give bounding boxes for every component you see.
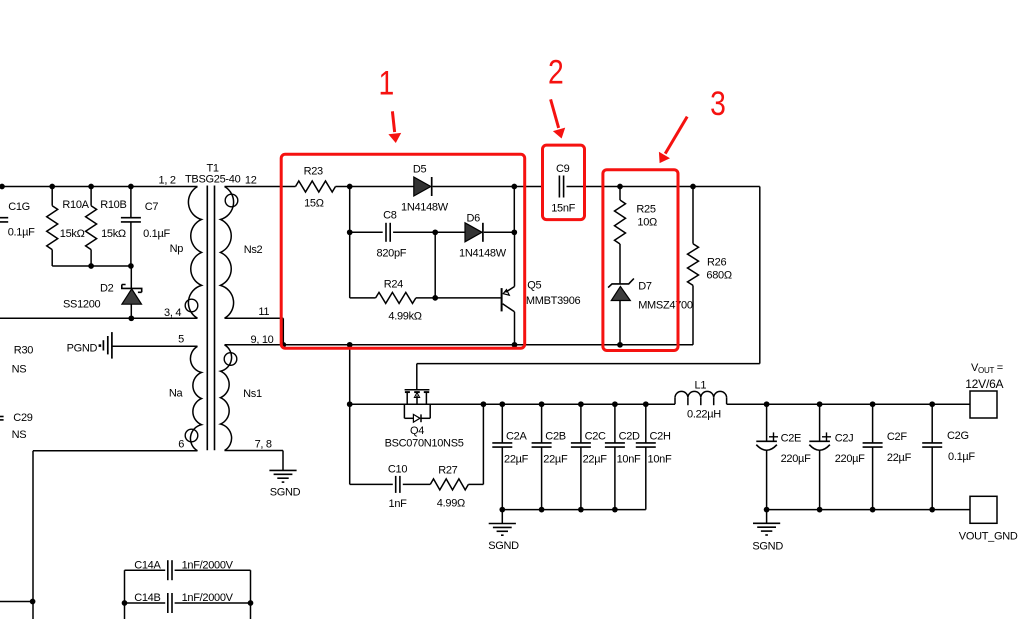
node R10A top [49,184,55,190]
svg-text:C8: C8 [383,210,397,222]
capacitor C2D 10nF [614,404,616,443]
capacitor C10 1nF [350,483,393,485]
node C2E top [764,401,770,407]
wire bottom-left stub [0,601,33,603]
svg-text:22µF: 22µF [887,452,912,464]
svg-text:5: 5 [178,334,184,346]
svg-text:22µF: 22µF [583,454,608,466]
resistor R24 4.99kΩ [376,292,416,303]
svg-text:0.1µF: 0.1µF [8,227,35,239]
ground SGND (output) [766,510,768,524]
svg-text:R23: R23 [304,166,323,178]
wire to Q4 drain [417,363,760,365]
wire pin 11 jog [225,317,284,319]
resistor R10A [51,187,53,206]
node C2A top [499,401,505,407]
diode D5 1N4148W [414,177,431,196]
transistor Q4 BSC070N10NS5 (NMOS) [416,364,418,389]
svg-text:1, 2: 1, 2 [159,175,176,187]
wire main output rail (right of L1) [727,403,970,405]
wire C9 right [567,186,760,188]
svg-text:C14A: C14A [134,560,161,572]
label C29 NS (off-sheet capacitor) [0,416,4,418]
node ground bus [817,507,823,513]
capacitor C14A 1nF/2000V [125,569,166,571]
ground SGND (transformer) [269,469,296,471]
resistor R25 10Ω [619,187,621,201]
capacitor C2G 0.1µF [931,404,933,443]
terminal VOUT_GND [970,496,997,523]
svg-text:SGND: SGND [752,541,783,553]
svg-text:0.1µF: 0.1µF [948,451,975,463]
capacitor C2B 22µF [541,404,543,443]
svg-text:D7: D7 [638,281,652,293]
wire rectified node down [759,187,761,364]
svg-text:C2E: C2E [781,433,802,445]
node C2F top [870,401,876,407]
node D7 anode [617,342,623,348]
svg-text:C2F: C2F [887,431,907,443]
node R23 right [347,184,353,190]
svg-text:Ns1: Ns1 [243,388,262,400]
svg-text:22µF: 22µF [543,454,568,466]
svg-text:Na: Na [169,388,184,400]
svg-text:C10: C10 [388,464,407,476]
svg-text:R25: R25 [636,204,655,216]
svg-text:D5: D5 [413,164,427,176]
svg-text:MMSZ4700: MMSZ4700 [638,300,693,312]
svg-text:C2C: C2C [585,431,606,443]
ground PGND (rotated) [99,344,102,347]
annotation arrow 2 [551,99,559,128]
resistor R27 4.99Ω [403,483,431,485]
node R26 top [690,184,696,190]
svg-text:1nF/2000V: 1nF/2000V [182,560,234,572]
node ground bus [870,507,876,513]
node R24 right [432,295,438,301]
capacitor C2J 220µF (electrolytic) [819,404,821,441]
svg-text:NS: NS [12,429,27,441]
svg-text:L1: L1 [695,380,707,392]
node C2C bottom [578,507,584,513]
svg-text:2: 2 [548,52,564,91]
svg-text:3: 3 [710,83,726,122]
svg-text:680Ω: 680Ω [706,270,731,282]
svg-text:11: 11 [258,306,269,318]
polarity dot Na [185,429,198,442]
wire C8 to D6 [393,231,465,233]
node mid-left [347,229,353,235]
wire pin 7,8 to SGND [225,450,284,452]
svg-text:SGND: SGND [488,540,519,552]
annotation arrow 3 [665,117,687,154]
svg-text:SS1200: SS1200 [63,299,101,311]
capacitor C2A 22µF [501,404,503,443]
svg-text:4.99kΩ: 4.99kΩ [388,311,421,323]
wire secondary return to rail [349,345,351,485]
svg-text:820pF: 820pF [377,248,407,260]
node D6 cathode junction [511,229,517,235]
winding Na (pins 5 - 6) [190,346,201,451]
capacitor C9 15nF [558,176,560,198]
wire RC bottom [52,265,131,267]
wire C14 right tie [250,570,252,619]
svg-text:12: 12 [245,175,257,187]
node C1G tap [0,184,5,190]
node C7 top [128,184,134,190]
wire D5 cathode [433,186,543,188]
node C14B left [122,600,128,606]
wire R24 to Q5 base [416,297,501,299]
node R27 riser [481,401,487,407]
svg-text:C14B: C14B [134,592,160,604]
svg-text:10nF: 10nF [617,454,641,466]
svg-text:15kΩ: 15kΩ [60,228,85,240]
node C2J top [817,401,823,407]
svg-text:R30: R30 [14,345,33,357]
svg-text:7, 8: 7, 8 [255,439,272,451]
node ground bus [929,507,935,513]
winding Np (pins 1,2 - 3,4) [188,187,201,319]
svg-text:MMBT3906: MMBT3906 [526,295,581,307]
svg-text:C1G: C1G [8,201,30,213]
svg-text:15Ω: 15Ω [304,198,324,210]
node C2G top [929,401,935,407]
svg-text:C2D: C2D [619,431,640,443]
svg-text:1nF/2000V: 1nF/2000V [182,592,234,604]
node C2D top [612,401,618,407]
svg-text:C2J: C2J [835,433,854,445]
capacitor C8 820pF [385,223,387,242]
svg-text:C29: C29 [13,412,32,424]
wire pin 12 to R23 [225,186,296,188]
svg-text:C9: C9 [556,163,570,175]
svg-text:C2G: C2G [947,430,969,442]
svg-text:VOUT_GND: VOUT_GND [959,531,1018,543]
ground SGND (cap bank) [501,510,503,524]
svg-text:C7: C7 [145,201,159,213]
annotation box 2 [543,145,585,220]
terminal VOUT [970,391,997,418]
node Q5 collector [512,342,518,348]
svg-text:TBSG25-40: TBSG25-40 [185,174,241,186]
svg-text:Q5: Q5 [527,280,541,292]
node C14B right [248,600,254,606]
svg-text:Ns2: Ns2 [244,244,263,256]
wire box1 bottom [283,344,693,346]
svg-text:220µF: 220µF [835,453,865,465]
capacitor C2H 10nF [645,404,647,443]
node D5 cathode junction [511,184,517,190]
svg-text:0.22µH: 0.22µH [687,409,721,421]
wire C14 left tie [124,570,126,619]
svg-text:1: 1 [379,63,395,102]
capacitor C2F 22µF [872,404,874,443]
wire mid row left [350,231,383,233]
svg-text:PGND: PGND [67,343,98,355]
inductor L1 0.22µH [674,398,676,404]
wire C8-R24 tie [434,232,436,298]
svg-text:SGND: SGND [270,486,301,498]
node R25 top [617,184,623,190]
svg-text:Np: Np [170,243,184,255]
svg-text:D6: D6 [467,213,481,225]
svg-text:C2B: C2B [545,431,566,443]
node ground bus [764,507,770,513]
wire pins 9,10 [225,344,284,346]
svg-text:C2A: C2A [506,431,527,443]
resistor R26 680Ω [692,187,694,244]
svg-text:R10A: R10A [62,199,89,211]
svg-text:R27: R27 [438,465,457,477]
diode D2 SS1200 (schottky) [130,266,132,288]
wire D5 cathode to D6 cathode [513,187,515,233]
svg-text:15nF: 15nF [551,203,575,215]
capacitor C2C 22µF [580,404,582,443]
node R10B top [88,184,94,190]
diode D6 1N4148W [465,223,482,242]
svg-text:C2H: C2H [650,431,671,443]
wire pin 3,4 to left edge [0,317,198,319]
node C8 right [432,229,438,235]
node rail left [347,401,353,407]
polarity dot Ns1 [224,353,237,366]
svg-text:BSC070N10NS5: BSC070N10NS5 [385,438,464,450]
diode D7 MMSZ4700 (zener) [608,279,634,288]
winding Ns1 (pins 9,10 - 7,8) [221,345,232,451]
svg-text:22µF: 22µF [504,454,529,466]
node C2C top [578,401,584,407]
svg-text:12V/6A: 12V/6A [965,377,1003,391]
svg-text:R24: R24 [384,279,403,291]
capacitor C7 [130,187,132,218]
annotation box 1 [281,154,525,348]
node bottom-left [30,599,36,605]
svg-text:R10B: R10B [100,199,126,211]
wire left branch vertical [349,187,351,298]
wire D6 cathode [484,231,515,233]
polarity dot Np [185,299,198,312]
annotation arrow 1 [392,111,394,132]
node C2B bottom [539,507,545,513]
svg-text:6: 6 [178,439,184,451]
node C2B top [539,401,545,407]
svg-text:220µF: 220µF [781,453,811,465]
svg-text:1nF: 1nF [389,498,408,510]
svg-text:10nF: 10nF [648,454,672,466]
winding Ns2 (pins 12 - 11) [221,187,234,319]
wire R23 to D5 [336,186,414,188]
polarity dot Ns2 [225,194,238,207]
resistor R23 [296,181,336,192]
svg-text:3, 4: 3, 4 [164,307,181,319]
svg-text:4.99Ω: 4.99Ω [437,498,465,510]
svg-text:D2: D2 [100,283,114,295]
svg-text:10Ω: 10Ω [637,217,657,229]
capacitor C14B 1nF/2000V [125,602,166,604]
svg-text:R26: R26 [707,257,726,269]
node R10B bottom [88,263,94,269]
svg-text:0.1µF: 0.1µF [143,228,170,240]
wire cap bank ground bus [502,509,646,511]
capacitor C1G (clipped at left edge) [0,217,8,219]
transistor Q5 MMBT3906 (PNP) [501,288,503,311]
wire output ground bus [767,509,970,511]
wire pin 6 run [33,450,198,452]
node D2 anode [128,315,134,321]
node C2A bottom [499,507,505,513]
svg-text:1N4148W: 1N4148W [459,248,507,260]
annotation box 3 [603,170,678,351]
wire low row left [350,297,376,299]
resistor R10B [90,187,92,206]
svg-text:Q4: Q4 [410,425,424,437]
svg-text:NS: NS [12,364,27,376]
svg-text:15kΩ: 15kΩ [101,228,126,240]
wire main output rail (left of L1) [350,403,675,405]
node C2D bottom [612,507,618,513]
transformer T1 core [206,186,208,451]
node bottom-left branch [347,342,353,348]
node pins 9,10 junction [280,342,286,348]
capacitor C2E 220µF (electrolytic) [766,404,768,441]
node C7 bottom [128,263,134,269]
node C2H top [643,401,649,407]
wire top rail left (node from C1G to transformer pin 1,2) [0,186,198,188]
svg-text:1N4148W: 1N4148W [401,202,449,214]
